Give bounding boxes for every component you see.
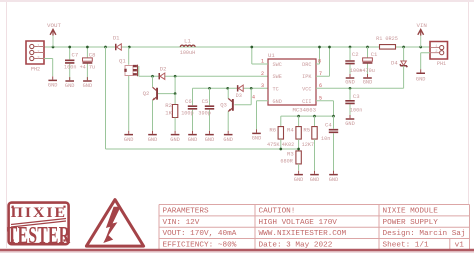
ground GND (C2) <box>345 74 355 86</box>
svg-text:Date: 3 May 2022: Date: 3 May 2022 <box>258 241 332 249</box>
ground GND (C5) <box>205 131 215 143</box>
svg-text:VIN: VIN <box>416 22 427 29</box>
svg-text:Q1: Q1 <box>119 58 126 65</box>
svg-text:v1: v1 <box>455 241 465 249</box>
wire CII net <box>281 115 334 117</box>
svg-text:1: 1 <box>261 59 264 65</box>
ground GND (C8) <box>83 77 93 89</box>
svg-text:6: 6 <box>319 83 322 89</box>
power flag VOUT <box>47 22 61 47</box>
svg-text:475K: 475K <box>267 142 280 148</box>
svg-text:IPK: IPK <box>302 74 312 80</box>
frame left edge <box>5 2 7 248</box>
inductor L1 <box>180 37 196 56</box>
svg-text:NIXIE MODULE: NIXIE MODULE <box>382 208 438 216</box>
svg-text:L1: L1 <box>184 37 191 44</box>
ground GND (U1 pin4) <box>252 129 262 141</box>
ground GND (PH1) <box>416 69 426 82</box>
svg-text:100n: 100n <box>64 65 76 71</box>
resistor R6 <box>267 116 284 148</box>
wire R6 to feedback line <box>280 139 282 149</box>
pin 1 wire <box>252 47 268 65</box>
pin 3 number <box>261 83 264 89</box>
svg-text:HIGH VOLTAGE 170V: HIGH VOLTAGE 170V <box>258 219 337 227</box>
wire Q3 base loop <box>234 88 251 105</box>
frame top edge <box>0 0 474 2</box>
svg-text:C6: C6 <box>185 98 192 105</box>
svg-text:VCC: VCC <box>302 86 311 92</box>
diode D4 (zener) <box>391 47 407 88</box>
svg-text:2: 2 <box>261 71 264 77</box>
resistor R4 <box>282 116 302 148</box>
svg-text:CII: CII <box>302 99 311 105</box>
svg-text:Design: Marcin Saj: Design: Marcin Saj <box>382 230 465 238</box>
svg-text:8: 8 <box>318 59 321 65</box>
svg-text:5: 5 <box>319 95 322 101</box>
svg-text:100n: 100n <box>350 108 362 114</box>
svg-text:GND: GND <box>48 82 58 88</box>
wire Q1 drain riser <box>128 47 130 65</box>
node pin1 rail junction <box>250 46 253 49</box>
svg-text:C7: C7 <box>72 52 79 59</box>
svg-text:GND: GND <box>294 177 304 183</box>
svg-text:GND: GND <box>345 80 355 86</box>
svg-text:ΠIXIE: ΠIXIE <box>11 204 67 221</box>
transistor Q1 (P-MOSFET) <box>119 58 138 77</box>
svg-text:GND: GND <box>273 99 282 105</box>
node C5 junction <box>208 87 211 90</box>
pin 8 wire <box>316 47 321 65</box>
capacitor C7 <box>64 47 78 80</box>
ground GND (PH2) <box>48 76 58 88</box>
svg-text:100p: 100p <box>181 111 193 117</box>
wire R3 to ground <box>298 164 300 171</box>
svg-text:3: 3 <box>261 83 264 89</box>
wire R4 to feedback node <box>298 139 300 151</box>
wire top rail <box>44 46 430 48</box>
ground GND (C1) <box>363 74 373 86</box>
svg-text:DRC: DRC <box>302 62 311 68</box>
node VIN junction <box>419 46 422 49</box>
svg-text:1K: 1K <box>165 110 172 117</box>
wire Q2 base <box>158 93 175 95</box>
resistor R5 <box>302 116 318 148</box>
ground GND (R3) <box>294 171 304 183</box>
ground GND (R5) <box>310 171 320 183</box>
svg-text:GND: GND <box>205 137 215 143</box>
wire PH1 pin2 to ground <box>421 53 430 70</box>
connector PH2 <box>26 41 44 73</box>
ground GND (Q1) <box>124 131 134 143</box>
wire R5 to ground <box>313 139 315 171</box>
svg-text:R1 0R25: R1 0R25 <box>376 36 398 42</box>
svg-text:GND: GND <box>148 137 158 143</box>
svg-text:WWW.NIXIETESTER.COM: WWW.NIXIETESTER.COM <box>258 230 346 238</box>
svg-text:VOUT: 170V, 40mA: VOUT: 170V, 40mA <box>162 230 236 238</box>
node C7 junction <box>68 46 71 49</box>
svg-text:POWER SUPPLY: POWER SUPPLY <box>382 219 438 227</box>
svg-text:680R: 680R <box>280 158 292 164</box>
title block table <box>159 204 470 249</box>
ground GND (C6) <box>188 131 198 143</box>
svg-text:GND: GND <box>170 137 180 143</box>
svg-text:4: 4 <box>252 94 255 100</box>
svg-text:Q3: Q3 <box>220 101 227 108</box>
svg-text:D4: D4 <box>391 60 398 67</box>
svg-text:GND: GND <box>416 77 426 83</box>
svg-text:C1: C1 <box>371 51 378 58</box>
wire TC net <box>193 87 269 89</box>
resistor R2 <box>165 94 178 118</box>
svg-text:R3: R3 <box>287 151 294 158</box>
node feedback tap junction <box>104 46 107 49</box>
wire R2 riser <box>174 76 176 93</box>
ground GND (Q2) <box>148 131 158 143</box>
svg-text:EFFICIENCY: ~80%: EFFICIENCY: ~80% <box>162 241 236 249</box>
svg-text:C2: C2 <box>352 51 359 58</box>
svg-text:R5: R5 <box>303 126 310 133</box>
svg-text:4.7u: 4.7u <box>83 65 95 71</box>
pin 5 wire <box>316 95 334 116</box>
svg-text:PH1: PH1 <box>437 61 446 67</box>
transistor Q2 (NPN) <box>143 87 158 100</box>
transistor Q3 (NPN) <box>220 98 234 111</box>
node Q1 drain junction <box>128 46 131 49</box>
diode D1 <box>113 35 121 51</box>
node pin8 rail junction <box>318 46 321 49</box>
title block parameters column <box>162 208 236 250</box>
high voltage warning triangle <box>86 200 143 247</box>
pin 4 wire <box>252 94 268 129</box>
pin names right <box>302 62 312 105</box>
pin names left <box>273 62 282 105</box>
node D3 cathode junction <box>250 87 253 90</box>
pin 2 number <box>261 71 264 77</box>
capacitor C6 <box>181 88 197 130</box>
power flag VIN <box>416 22 427 47</box>
logo NIXIE TESTER <box>7 203 71 249</box>
svg-text:GND: GND <box>252 136 262 142</box>
svg-text:TC: TC <box>273 86 279 92</box>
node R4 junction <box>297 115 300 118</box>
svg-text:PH2: PH2 <box>31 66 40 72</box>
node R6 bottom junction <box>279 148 282 151</box>
wire PH2 pin3 to ground <box>44 58 53 76</box>
svg-text:GND: GND <box>83 83 93 89</box>
ground GND (C7) <box>65 77 75 89</box>
node Q2 base junction <box>174 92 177 95</box>
svg-text:TESTER: TESTER <box>7 223 71 249</box>
wire Q2 collector <box>152 76 154 87</box>
svg-text:GND: GND <box>329 177 339 183</box>
ground GND (C3) <box>345 115 355 127</box>
svg-text:12K7: 12K7 <box>302 142 314 148</box>
node C3 junction <box>349 87 352 90</box>
node Q2 collector junction <box>151 75 154 78</box>
title block caution column <box>258 208 346 250</box>
capacitor C5 <box>198 88 214 130</box>
wire Q1 source to D2 net <box>139 66 153 76</box>
svg-text:CAUTION!: CAUTION! <box>258 208 295 216</box>
svg-text:R6: R6 <box>269 126 276 133</box>
pin 7 wire <box>316 47 330 77</box>
svg-text:R4: R4 <box>287 126 294 133</box>
svg-text:C4: C4 <box>325 121 332 128</box>
svg-text:GND: GND <box>124 137 134 143</box>
pin 6 wire VCC net <box>316 83 404 89</box>
svg-text:D1: D1 <box>113 35 120 42</box>
diode D2 <box>159 65 167 79</box>
node Q3 collector junction <box>226 87 229 90</box>
title block project column <box>382 208 465 250</box>
capacitor C4 <box>321 116 338 172</box>
node R5 junction <box>313 115 316 118</box>
wire feedback line <box>105 47 298 149</box>
svg-text:C5: C5 <box>202 98 209 105</box>
wire R2 to ground <box>174 117 176 130</box>
svg-text:470u: 470u <box>362 68 374 74</box>
frame right edge <box>467 2 469 205</box>
capacitor C2 <box>345 47 362 76</box>
diode D3 <box>236 85 244 99</box>
node C4 junction <box>332 115 335 118</box>
resistor R1 <box>376 36 398 49</box>
ground GND (Q3) <box>223 131 233 143</box>
svg-text:C3: C3 <box>353 93 360 100</box>
svg-text:U1: U1 <box>268 52 275 59</box>
wire Q3 emitter to ground <box>227 111 229 130</box>
node VOUT junction <box>52 46 55 49</box>
capacitor C1 <box>359 47 378 76</box>
svg-text:GND: GND <box>345 121 355 127</box>
svg-text:7: 7 <box>319 71 322 77</box>
svg-text:GND: GND <box>65 83 75 89</box>
svg-text:GND: GND <box>223 137 233 143</box>
wire SWE net <box>153 75 268 77</box>
svg-text:GND: GND <box>363 80 373 86</box>
node C8 junction <box>86 46 89 49</box>
wire Q2 emitter to ground <box>151 100 153 130</box>
svg-text:Q2: Q2 <box>143 90 150 97</box>
resistor R3 <box>280 151 301 165</box>
node pin7 rail junction <box>328 46 331 49</box>
node R2 top riser junction <box>174 75 177 78</box>
svg-text:GND: GND <box>188 137 198 143</box>
frame bottom heavy line <box>0 249 474 253</box>
ground GND (C4) <box>329 171 339 183</box>
wire Q1 gate to ground <box>128 76 130 131</box>
svg-text:MC34063: MC34063 <box>293 106 317 113</box>
svg-text:10n: 10n <box>321 136 330 142</box>
svg-text:SWC: SWC <box>273 62 282 68</box>
svg-text:GND: GND <box>310 177 320 183</box>
capacitor C3 <box>345 88 362 117</box>
node C2 junction <box>349 46 352 49</box>
svg-text:100uH: 100uH <box>180 50 196 56</box>
capacitor C8 <box>80 47 96 80</box>
svg-text:Sheet: 1/1: Sheet: 1/1 <box>382 241 429 249</box>
node D4 junction <box>402 46 405 49</box>
wire Q3 collector <box>227 88 229 98</box>
svg-text:D2: D2 <box>160 65 167 72</box>
svg-text:VIN: 12V: VIN: 12V <box>162 219 199 227</box>
svg-text:PARAMETERS: PARAMETERS <box>162 208 209 216</box>
ground GND (R2) <box>170 131 180 143</box>
svg-text:SWE: SWE <box>273 74 282 80</box>
node C1 junction <box>366 46 369 49</box>
svg-text:390p: 390p <box>198 111 210 117</box>
svg-text:D3: D3 <box>236 93 242 99</box>
svg-text:R2: R2 <box>165 102 172 109</box>
IC U1 MC34063 <box>268 52 316 113</box>
connector PH1 <box>430 42 448 68</box>
svg-text:VOUT: VOUT <box>47 22 61 29</box>
node R3 top junction <box>297 148 300 151</box>
svg-text:4K02: 4K02 <box>282 142 294 148</box>
svg-text:C8: C8 <box>89 52 96 59</box>
